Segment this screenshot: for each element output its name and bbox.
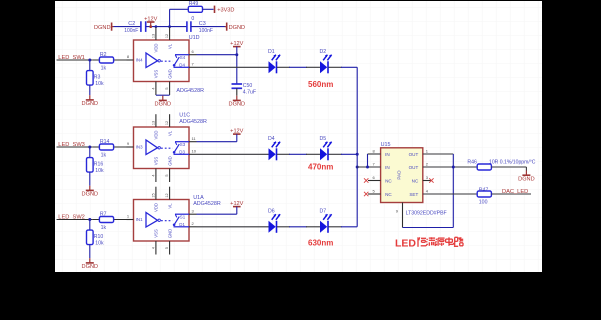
svg-text:C50: C50 <box>243 83 253 89</box>
svg-text:R2: R2 <box>100 52 107 58</box>
pin NC 6 with no-ERC <box>368 180 381 182</box>
pin numbers U15 right <box>426 148 429 193</box>
LED D2 <box>320 49 332 74</box>
svg-text:15: 15 <box>151 193 155 197</box>
svg-text:1k: 1k <box>101 153 107 159</box>
junction +12V node <box>235 53 238 56</box>
junction rail row2 <box>356 153 359 156</box>
junction OUT node <box>452 166 455 169</box>
power +12V (switch supply) <box>230 129 243 142</box>
svg-text:GND: GND <box>167 156 172 166</box>
svg-text:D1: D1 <box>179 222 185 227</box>
svg-text:R10: R10 <box>94 234 104 240</box>
svg-text:IN4: IN4 <box>136 58 143 63</box>
wire R46 to DGND <box>491 166 526 168</box>
svg-text:5: 5 <box>165 174 169 176</box>
wire D pin to LED <box>197 66 269 68</box>
op-amp/analog switch U1A ADG4528R <box>127 187 197 255</box>
svg-text:+12V: +12V <box>230 41 243 47</box>
resistor R47 100 <box>477 188 491 206</box>
op-amp/analog switch U1D ADG4528R <box>127 27 197 95</box>
svg-text:GND: GND <box>167 69 172 79</box>
svg-text:OUT: OUT <box>409 165 419 170</box>
title LED constant current source (Chinese) <box>395 237 463 249</box>
LED D4 <box>268 136 280 161</box>
wire OUT rail down <box>452 167 454 228</box>
svg-text:100: 100 <box>479 200 488 206</box>
svg-text:+12V: +12V <box>144 16 157 22</box>
svg-text:DAC_LED: DAC_LED <box>502 189 528 195</box>
LED D7 <box>320 208 332 233</box>
svg-text:R16: R16 <box>94 162 104 168</box>
power +12V (top) <box>144 16 157 28</box>
wire R49 to +3V3D <box>203 8 214 10</box>
svg-text:DGND: DGND <box>229 102 245 108</box>
svg-text:C2: C2 <box>128 21 135 27</box>
svg-text:12: 12 <box>165 34 169 38</box>
svg-text:12: 12 <box>165 121 169 125</box>
svg-text:630nm: 630nm <box>308 239 333 248</box>
svg-text:VSS: VSS <box>154 157 159 166</box>
wire C3 to DGND <box>191 26 226 28</box>
junction node pin12/R49 <box>168 25 171 28</box>
wire resistor to ground <box>89 85 91 95</box>
ground DGND (C50) <box>236 96 238 101</box>
svg-text:D1: D1 <box>268 49 275 55</box>
svg-text:ADG4528R: ADG4528R <box>193 201 221 207</box>
svg-text:VSS: VSS <box>154 229 159 238</box>
wire C50 to ground <box>236 88 238 95</box>
wire OUT pin 1 <box>423 153 454 155</box>
svg-text:R49: R49 <box>189 1 199 7</box>
svg-text:R3: R3 <box>94 75 101 81</box>
pin 9 PAD <box>402 203 404 228</box>
regulator U15 LT3092 <box>381 148 423 203</box>
svg-text:DGND: DGND <box>82 264 98 270</box>
svg-text:NC: NC <box>385 192 392 197</box>
svg-text:R46: R46 <box>467 160 477 166</box>
svg-text:12: 12 <box>165 193 169 197</box>
ground DGND (left of C2) <box>94 23 113 32</box>
svg-text:4: 4 <box>151 174 155 176</box>
pin numbers U15 left <box>373 148 376 193</box>
svg-text:10k: 10k <box>95 81 104 87</box>
svg-text:470nm: 470nm <box>308 163 333 172</box>
svg-text:13: 13 <box>151 121 155 125</box>
ground DGND (input divider) <box>89 186 91 191</box>
svg-text:0: 0 <box>191 16 194 22</box>
LED D5 <box>320 136 332 161</box>
resistor R46 10R <box>467 160 491 170</box>
svg-text:D3: D3 <box>179 150 185 155</box>
wire PAD to OUT rail <box>403 227 454 229</box>
resistor R10 10k <box>87 230 104 247</box>
wire D6 to D7 <box>277 226 290 228</box>
svg-text:+3V3D: +3V3D <box>217 8 234 14</box>
op-amp/analog switch U1C ADG4528R <box>127 114 197 182</box>
wire D4 to D5 <box>277 153 290 155</box>
wire SET pin 4 to R47 <box>423 193 477 195</box>
ground DGND (right of C3) <box>225 23 245 32</box>
svg-text:SET: SET <box>409 192 418 197</box>
svg-text:D7: D7 <box>320 208 327 214</box>
wire S pin to +12V <box>197 54 237 56</box>
svg-text:VL: VL <box>167 203 172 209</box>
wire +12V down to C50 <box>236 47 238 84</box>
wire resistor to ground <box>89 245 91 259</box>
svg-text:100nF: 100nF <box>199 28 213 34</box>
svg-text:LED: LED <box>395 237 416 249</box>
svg-text:IN3: IN3 <box>136 145 143 150</box>
svg-text:LT3092EDD#PBF: LT3092EDD#PBF <box>406 210 447 216</box>
svg-text:ADG4528R: ADG4528R <box>179 119 207 125</box>
wire C2 to chip supply rail <box>146 26 187 28</box>
svg-text:IN: IN <box>385 152 390 157</box>
svg-text:D4: D4 <box>179 63 185 68</box>
wire D1 to D2 <box>277 66 290 68</box>
svg-text:U1A: U1A <box>193 195 204 201</box>
resistor R3 10k <box>87 71 104 88</box>
svg-text:4.7uF: 4.7uF <box>243 89 256 95</box>
svg-text:10k: 10k <box>95 241 104 247</box>
power +12V (switch supply) <box>230 41 243 47</box>
svg-text:560nm: 560nm <box>308 80 333 89</box>
labels U15 pin functions <box>385 152 419 197</box>
wire LED common rail <box>356 67 358 227</box>
svg-text:ADG4528R: ADG4528R <box>176 88 204 94</box>
svg-text:D2: D2 <box>320 49 327 55</box>
svg-text:R14: R14 <box>100 139 110 145</box>
resistor R2 1k <box>99 52 113 72</box>
LED D6 <box>268 208 280 233</box>
wire LED_SW1 input <box>57 59 93 61</box>
svg-text:DGND: DGND <box>82 101 98 107</box>
svg-text:U1C: U1C <box>179 112 190 118</box>
svg-text:GND: GND <box>167 229 172 239</box>
svg-text:D4: D4 <box>268 136 275 142</box>
svg-text:VL: VL <box>167 43 172 49</box>
wire D pin to LED <box>197 226 269 228</box>
svg-text:13: 13 <box>151 34 155 38</box>
svg-text:D6: D6 <box>268 208 275 214</box>
svg-text:5: 5 <box>165 87 169 89</box>
svg-text:4: 4 <box>151 247 155 249</box>
ground DGND (R46) <box>525 171 527 176</box>
svg-text:VSS: VSS <box>154 70 159 79</box>
ground DGND (U1D supply) <box>162 96 164 101</box>
ground DGND (input divider) <box>89 258 91 263</box>
pin NC 3 with no-ERC <box>423 180 431 182</box>
svg-text:DGND: DGND <box>229 25 245 31</box>
wire VSS/GND pins join <box>156 94 170 96</box>
wire to resistor R3 <box>89 60 91 71</box>
resistor R49 0 <box>188 1 202 22</box>
svg-text:10k: 10k <box>95 168 104 174</box>
wire R47 to DAC_LED <box>491 193 531 195</box>
wire S pin to +12V <box>197 141 237 143</box>
svg-text:+12V: +12V <box>230 129 243 135</box>
wire S pin to +12V <box>197 213 237 215</box>
capacitor C3 100nF <box>187 21 213 34</box>
capacitor C2 100nF <box>124 21 146 34</box>
junction input node <box>88 59 91 62</box>
wire LED_SW3 input <box>57 146 93 148</box>
wire LED to common rail <box>329 153 343 155</box>
wire to resistor R16 <box>89 147 91 158</box>
wire LED to common rail <box>329 226 343 228</box>
svg-text:D5: D5 <box>320 136 327 142</box>
svg-text:DGND: DGND <box>155 102 171 108</box>
svg-text:U15: U15 <box>381 142 391 148</box>
svg-text:IN: IN <box>385 165 390 170</box>
svg-text:+12V: +12V <box>230 201 243 207</box>
schematic sheet <box>55 1 542 272</box>
svg-text:VDD: VDD <box>154 43 159 52</box>
svg-text:100nF: 100nF <box>124 28 138 34</box>
wire resistor to ground <box>89 172 91 186</box>
junction input node <box>88 218 91 221</box>
svg-text:NC: NC <box>385 178 392 183</box>
svg-text:1k: 1k <box>101 66 107 72</box>
power +12V (switch supply) <box>230 201 243 214</box>
svg-text:R7: R7 <box>100 211 107 217</box>
wire DGND to C2 <box>114 26 141 28</box>
wire U15 IN pin 8 <box>368 153 381 155</box>
svg-text:10R 0.1%/10ppm/°C: 10R 0.1%/10ppm/°C <box>489 160 536 166</box>
svg-text:DGND: DGND <box>94 25 110 31</box>
ground DGND (input divider) <box>89 95 91 100</box>
pin NC 5 with no-ERC <box>368 193 381 195</box>
svg-text:5: 5 <box>165 247 169 249</box>
svg-text:DGND: DGND <box>518 176 534 182</box>
wire LED to common rail <box>329 66 343 68</box>
wire to resistor R10 <box>89 220 91 231</box>
svg-text:R47: R47 <box>479 188 489 194</box>
svg-text:DGND: DGND <box>82 192 98 198</box>
svg-text:10: 10 <box>192 149 197 154</box>
svg-text:U1D: U1D <box>189 35 200 41</box>
wire U15 IN pin 7 <box>357 166 380 168</box>
wire OUT pin 2 to R46 <box>423 166 454 168</box>
svg-text:S4: S4 <box>180 55 186 60</box>
junction IN pins <box>366 166 369 169</box>
wire R49 left lead down to VL rail <box>169 9 171 25</box>
svg-text:OUT: OUT <box>409 152 419 157</box>
capacitor C50 4.7uF <box>232 83 257 95</box>
wire LED_SW2 input <box>57 219 93 221</box>
wire D pin to LED <box>197 153 269 155</box>
power +3V3D <box>215 6 235 14</box>
svg-text:1k: 1k <box>101 225 107 231</box>
svg-text:VDD: VDD <box>154 130 159 139</box>
junction input node <box>88 146 91 149</box>
svg-text:VL: VL <box>167 130 172 136</box>
svg-text:S1: S1 <box>180 215 186 220</box>
junction pin13/VDD <box>155 25 158 28</box>
svg-text:VDD: VDD <box>154 203 159 212</box>
resistor R14 1k <box>99 139 113 159</box>
svg-text:NC: NC <box>412 178 419 183</box>
junction rail U15 <box>356 166 359 169</box>
svg-text:S3: S3 <box>180 142 186 147</box>
LED D1 <box>268 49 280 74</box>
svg-text:PAD: PAD <box>397 170 402 180</box>
svg-text:IN1: IN1 <box>136 217 143 222</box>
svg-text:4: 4 <box>151 87 155 89</box>
resistor R7 1k <box>99 211 113 231</box>
resistor R16 10k <box>87 158 104 175</box>
